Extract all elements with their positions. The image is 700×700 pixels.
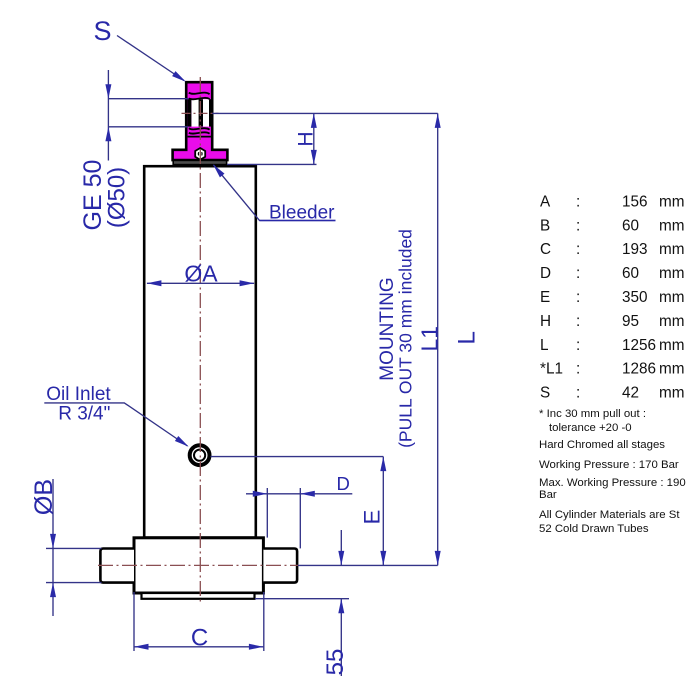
rod end spherical bearing bore [188, 93, 211, 137]
svg-text:mm: mm [659, 193, 685, 210]
label S [93, 16, 111, 46]
dimension D [246, 488, 352, 548]
label OA [184, 261, 218, 287]
svg-text:60: 60 [622, 265, 639, 282]
svg-text:Hard Chromed all stages: Hard Chromed all stages [539, 439, 665, 451]
svg-text:H: H [540, 313, 551, 330]
svg-text:L1: L1 [417, 326, 443, 352]
oil inlet reference line [211, 456, 384, 458]
svg-text::: : [576, 217, 580, 234]
gland plate under flange [173, 160, 226, 164]
dimension 55 [255, 530, 349, 676]
svg-text:A: A [540, 193, 551, 210]
rod end GE 50 body (magenta) [173, 82, 228, 160]
svg-text:E: E [360, 510, 385, 525]
svg-text:(Ø50): (Ø50) [104, 167, 131, 228]
svg-text::: : [576, 241, 580, 258]
svg-text:* Inc 30 mm pull out :: * Inc 30 mm pull out : [539, 408, 646, 420]
svg-text::: : [576, 385, 580, 402]
svg-text:mm: mm [659, 265, 685, 282]
dimension OA [147, 280, 254, 286]
bottom trunnion block [134, 538, 263, 593]
dimension C [134, 592, 264, 651]
svg-text:mm: mm [659, 337, 685, 354]
svg-text:Max. Working Pressure : 190: Max. Working Pressure : 190 [539, 477, 686, 489]
svg-text:mm: mm [659, 289, 685, 306]
svg-text:1256: 1256 [622, 337, 656, 354]
svg-text:ØB: ØB [30, 479, 58, 515]
dimension E [380, 457, 386, 566]
svg-text:D: D [337, 473, 350, 494]
oil inlet leader [44, 403, 188, 447]
svg-text:mm: mm [659, 217, 685, 234]
svg-text:B: B [540, 217, 550, 234]
vertical centerline [199, 77, 201, 603]
svg-text:C: C [540, 241, 551, 258]
svg-text::: : [576, 313, 580, 330]
svg-text:All Cylinder Materials are St: All Cylinder Materials are St [539, 509, 680, 521]
label Bleeder [269, 203, 335, 224]
dimension H [227, 113, 317, 164]
dimension S leader [117, 36, 186, 82]
svg-text:mm: mm [659, 313, 685, 330]
label MOUNTING [377, 277, 398, 380]
svg-text:193: 193 [622, 241, 648, 258]
svg-text:mm: mm [659, 385, 685, 402]
label L1 [417, 326, 443, 352]
left trunnion pin [100, 549, 134, 583]
svg-text:D: D [540, 265, 551, 282]
dimension table [540, 193, 685, 401]
bottom end plate [142, 593, 255, 599]
svg-text:55: 55 [322, 649, 349, 676]
label D [337, 473, 350, 494]
svg-text:42: 42 [622, 385, 639, 402]
label Oil Inlet R 3/4 [46, 384, 111, 425]
svg-text:95: 95 [622, 313, 639, 330]
svg-text:52 Cold Drawn Tubes: 52 Cold Drawn Tubes [539, 523, 649, 535]
right trunnion pin [263, 549, 297, 583]
label E [360, 510, 385, 525]
bleeder hex screw [195, 148, 205, 160]
svg-text:L: L [540, 337, 549, 354]
svg-text::: : [576, 193, 580, 210]
svg-text::: : [576, 265, 580, 282]
svg-text::: : [576, 289, 580, 306]
notes [539, 408, 686, 535]
pin centerline extension [298, 564, 438, 566]
svg-text::: : [576, 337, 580, 354]
label (PULL OUT 30 mm included [396, 229, 416, 448]
label 55 [322, 649, 349, 676]
svg-text:Working Pressure : 170 Bar: Working Pressure : 170 Bar [539, 459, 679, 471]
svg-text:S: S [93, 16, 111, 46]
svg-text:(PULL OUT 30 mm included: (PULL OUT 30 mm included [396, 229, 416, 448]
svg-text:156: 156 [622, 193, 648, 210]
cylinder tube body [144, 166, 256, 537]
label (O50) [104, 167, 131, 228]
svg-text:mm: mm [659, 241, 685, 258]
rod eye center reference line [212, 112, 437, 114]
svg-text:1286: 1286 [622, 361, 656, 378]
svg-text:Bar: Bar [539, 489, 557, 501]
label L [453, 331, 480, 345]
svg-text:ØA: ØA [184, 261, 218, 287]
svg-text:E: E [540, 289, 550, 306]
svg-text:C: C [191, 624, 208, 651]
rod eye centerline tick [182, 112, 219, 114]
label H [295, 131, 318, 146]
dimension L / L1 [435, 113, 441, 565]
svg-text:tolerance +20 -0: tolerance +20 -0 [549, 422, 632, 434]
pin axis centerline [98, 564, 298, 566]
svg-text:S: S [540, 385, 550, 402]
svg-text:60: 60 [622, 217, 639, 234]
svg-text:H: H [295, 131, 318, 146]
svg-text:R 3/4": R 3/4" [58, 404, 110, 425]
bleeder label underline [260, 220, 336, 222]
label OB [30, 479, 58, 515]
bleeder leader [213, 164, 336, 220]
oil inlet port R 3/4 [190, 445, 210, 465]
dimension OB [46, 479, 102, 616]
label C [191, 624, 208, 651]
svg-text:Oil Inlet: Oil Inlet [46, 384, 111, 405]
svg-text:mm: mm [659, 361, 685, 378]
dimension S [105, 70, 188, 161]
svg-text:L: L [453, 331, 480, 345]
svg-text:350: 350 [622, 289, 648, 306]
svg-text:*L1: *L1 [540, 361, 563, 378]
svg-text::: : [576, 361, 580, 378]
label GE 50 [79, 160, 107, 231]
